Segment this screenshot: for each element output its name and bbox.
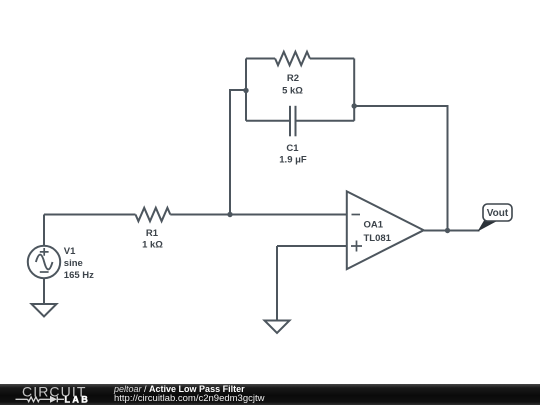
svg-text:1 kΩ: 1 kΩ: [142, 240, 163, 251]
svg-text:http://circuitlab.com/c2n9edm3: http://circuitlab.com/c2n9edm3gcjtw: [114, 393, 265, 404]
svg-text:sine: sine: [64, 258, 83, 269]
svg-text:R2: R2: [287, 73, 299, 84]
svg-text:TL081: TL081: [364, 233, 392, 244]
svg-text:1.9 μF: 1.9 μF: [279, 155, 307, 166]
svg-text:V1: V1: [64, 246, 76, 257]
svg-text:R1: R1: [146, 228, 159, 239]
svg-text:C1: C1: [286, 143, 299, 154]
svg-text:OA1: OA1: [364, 220, 384, 231]
svg-text:165 Hz: 165 Hz: [64, 270, 94, 281]
svg-text:LAB: LAB: [65, 394, 91, 404]
svg-text:Vout: Vout: [487, 208, 509, 219]
svg-text:5 kΩ: 5 kΩ: [282, 86, 303, 97]
